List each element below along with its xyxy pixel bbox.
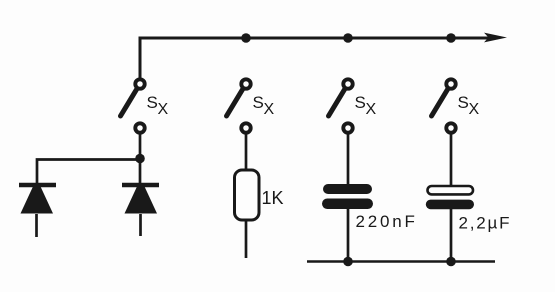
node A: diode junction [135, 154, 145, 164]
svg-text:S: S [253, 93, 264, 112]
svg-text:S: S [147, 93, 158, 112]
wire: bottom rail [307, 260, 495, 263]
label S_X #1 [147, 93, 169, 118]
wire: top supply bus (corner at left, runs right) [140, 38, 498, 78]
node: bus junction at branch 3 [343, 33, 353, 43]
switch S_X #2 [227, 79, 251, 132]
svg-text:1K: 1K [262, 188, 284, 208]
diode D1 (left, cathode bar up) [19, 185, 56, 237]
capacitor 220nF (two thick plates) [322, 184, 373, 209]
switch S_X #3 [329, 79, 353, 132]
wire: switch 1 to junction node A [139, 135, 142, 160]
svg-text:220nF: 220nF [356, 212, 418, 231]
node: bus junction at branch 2 [241, 33, 251, 43]
label S_X #2 [253, 93, 275, 118]
electrolytic capacitor 2,2uF (hollow top plate, solid bottom plate) [426, 186, 474, 209]
wire: switch 4 to electrolytic capacitor [450, 135, 453, 188]
diode D2 (right, cathode bar up) [122, 163, 159, 236]
resistor 1K [235, 170, 260, 220]
wire: capacitor to bottom rail [347, 208, 350, 262]
node: rail junction at branch 4 [446, 257, 456, 267]
label S_X #4 [458, 93, 480, 118]
switch S_X #4 [432, 79, 456, 132]
wire: switch 3 to capacitor [347, 135, 350, 186]
svg-text:X: X [366, 101, 377, 118]
svg-text:S: S [355, 93, 366, 112]
node: rail junction at branch 3 [343, 257, 353, 267]
svg-text:X: X [158, 101, 169, 118]
wire: junction A left to diode D1 [37, 160, 140, 185]
wire: resistor open lead down [245, 220, 248, 258]
svg-text:X: X [264, 101, 275, 118]
wire: switch 2 to resistor [245, 135, 248, 171]
arrowhead at right end of supply bus [484, 33, 507, 43]
svg-text:X: X [469, 101, 480, 118]
svg-text:S: S [458, 93, 469, 112]
wire: electrolytic to bottom rail [450, 209, 453, 262]
label S_X #3 [355, 93, 377, 118]
svg-text:2,2µF: 2,2µF [459, 214, 512, 233]
node: bus junction at branch 4 [446, 33, 456, 43]
switch S_X #1 [121, 79, 145, 132]
